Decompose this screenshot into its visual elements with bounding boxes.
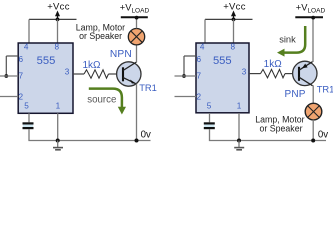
wire: pin2 lead bbox=[0, 96, 18, 98]
wire: pin3 to resistor bbox=[73, 73, 84, 75]
lamp LP1 (left) bbox=[128, 29, 144, 45]
wire: pin6 stub (right) bbox=[184, 55, 196, 57]
svg-text:8: 8 bbox=[231, 42, 236, 51]
ground symbol (left) bbox=[53, 141, 63, 150]
wire: pin6-pin7 vertical link (right) bbox=[183, 56, 185, 76]
svg-text:8: 8 bbox=[55, 42, 60, 51]
svg-text:6: 6 bbox=[197, 55, 202, 64]
wire: resistor to base (right) bbox=[285, 73, 299, 75]
node: junction dot at +Vcc arrow bbox=[56, 18, 60, 22]
wire: pin5 drop to capacitor (right) bbox=[209, 113, 211, 122]
svg-text:2: 2 bbox=[197, 92, 202, 101]
wire: pin1 drop bbox=[57, 113, 59, 140]
svg-text:1kΩ: 1kΩ bbox=[264, 59, 283, 70]
svg-text:+Vcc: +Vcc bbox=[223, 1, 246, 12]
svg-text:4: 4 bbox=[200, 42, 205, 51]
svg-text:7: 7 bbox=[197, 72, 202, 81]
node: junction dot at +Vcc arrow (right) bbox=[232, 18, 236, 22]
node: junction dot pin1/0v (right) bbox=[237, 139, 241, 143]
node: dot under terminal (left) bbox=[135, 16, 139, 20]
svg-text:2: 2 bbox=[19, 92, 24, 101]
svg-text:+VLOAD: +VLOAD bbox=[296, 3, 326, 15]
svg-text:source: source bbox=[87, 95, 116, 106]
wire: +Vcc top rail bbox=[29, 18, 77, 20]
svg-text:TR1: TR1 bbox=[317, 84, 333, 95]
svg-text:+VLOAD: +VLOAD bbox=[120, 3, 150, 15]
resistor R1 1k zigzag (left) bbox=[84, 70, 109, 78]
svg-text:PNP: PNP bbox=[285, 89, 306, 100]
svg-text:4: 4 bbox=[24, 42, 29, 51]
wire: pin7 lead (right) bbox=[175, 75, 197, 77]
svg-text:or Speaker: or Speaker bbox=[79, 31, 122, 41]
current arrow: sink (green) bbox=[277, 26, 305, 57]
resistor R2 1k zigzag (right) bbox=[261, 69, 286, 77]
node: junction dot pin7 (right) bbox=[182, 74, 186, 78]
node: junction dot emitter/0v bbox=[135, 139, 139, 143]
wire: emitter riser to +Vload (right) bbox=[312, 17, 314, 62]
svg-text:1: 1 bbox=[237, 102, 242, 111]
IC U1: 555 timer body bbox=[18, 43, 73, 113]
wire: emitter drop to 0v bbox=[136, 84, 138, 141]
wire: capacitor to 0v rail (right) bbox=[209, 129, 211, 140]
svg-text:0v: 0v bbox=[318, 130, 328, 141]
svg-text:5: 5 bbox=[207, 102, 212, 111]
node: junction dot pin7 bbox=[4, 74, 8, 78]
svg-text:555: 555 bbox=[213, 55, 232, 67]
wire: capacitor to 0v rail bbox=[28, 129, 30, 140]
svg-text:or Speaker: or Speaker bbox=[259, 124, 302, 134]
wire: pin3 to resistor (right) bbox=[249, 73, 261, 75]
svg-text:3: 3 bbox=[65, 67, 70, 76]
transistor TR1 PNP bbox=[293, 61, 317, 85]
wire: pin4 riser (right) bbox=[204, 19, 206, 42]
wire: collector riser to lamp bbox=[136, 45, 138, 62]
wire: lamp to +Vload terminal bbox=[136, 17, 138, 28]
svg-text:0v: 0v bbox=[141, 130, 151, 141]
node: junction dot lamp/0v (right) bbox=[311, 139, 315, 143]
svg-text:1kΩ: 1kΩ bbox=[82, 60, 101, 71]
ground symbol (right) bbox=[234, 141, 244, 150]
transistor TR1 NPN bbox=[117, 62, 141, 86]
svg-text:7: 7 bbox=[19, 72, 24, 81]
svg-text:1: 1 bbox=[56, 102, 61, 111]
svg-text:NPN: NPN bbox=[110, 49, 132, 60]
+Vload terminal bar (left) bbox=[121, 16, 148, 18]
lamp LP2 (right) bbox=[305, 103, 322, 120]
capacitor C2 bbox=[204, 123, 215, 128]
svg-text:+Vcc: +Vcc bbox=[47, 1, 70, 12]
svg-text:6: 6 bbox=[19, 55, 24, 64]
wire: pin8 riser (right) bbox=[233, 19, 235, 42]
wire: pin2 lead (right) bbox=[175, 96, 197, 98]
wire: pin1 drop (right) bbox=[238, 113, 240, 141]
svg-text:3: 3 bbox=[242, 67, 247, 76]
wire: lamp to 0v (right) bbox=[312, 120, 314, 141]
+Vcc supply arrow bbox=[55, 11, 60, 20]
wire: collector drop to lamp (right) bbox=[312, 85, 314, 104]
wire: pin8 riser bbox=[57, 19, 59, 42]
current arrow: source (green) bbox=[89, 89, 126, 115]
IC U2: 555 timer body (right) bbox=[196, 43, 249, 113]
wire: pin6-pin7 vertical link bbox=[5, 56, 7, 76]
wire: pin6 stub bbox=[6, 55, 18, 57]
node: dot under terminal (right) bbox=[311, 16, 315, 20]
svg-text:sink: sink bbox=[279, 34, 296, 44]
wire: +Vcc top rail (right) bbox=[205, 18, 253, 20]
wire: 0v bottom rail (left) bbox=[28, 140, 150, 142]
wire: pin4 riser bbox=[28, 19, 30, 42]
wire: pin5 drop to capacitor bbox=[28, 113, 30, 122]
+Vload terminal bar (right) bbox=[295, 16, 323, 18]
svg-text:TR1: TR1 bbox=[139, 82, 157, 93]
svg-text:5: 5 bbox=[24, 102, 29, 111]
+Vcc supply arrow (right) bbox=[231, 11, 236, 20]
wire: pin7 lead bbox=[0, 75, 18, 77]
capacitor C1 bbox=[23, 123, 34, 128]
wire: 0v bottom rail (right) bbox=[209, 140, 326, 142]
svg-text:555: 555 bbox=[37, 55, 56, 67]
node: junction dot pin1/0v bbox=[56, 139, 60, 143]
wire: resistor to base bbox=[109, 73, 123, 75]
